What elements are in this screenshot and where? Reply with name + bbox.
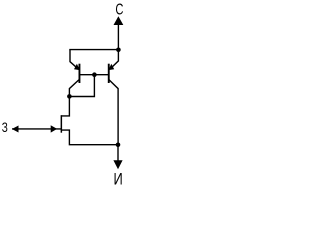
wire base line VT1-VT2 bbox=[79, 74, 108, 76]
svg-text:З: З bbox=[2, 119, 8, 135]
gate arrow right (into channel) bbox=[51, 125, 57, 132]
wire emitter lead VT1 bbox=[70, 50, 79, 70]
wire C lead bbox=[117, 20, 119, 50]
wire base tie to collector VT1 bbox=[69, 75, 94, 97]
gate arrow left (toward Z) bbox=[12, 126, 19, 133]
emitter arrow VT2 (PNP, into base) bbox=[108, 64, 114, 70]
wire emitter lead VT2 bbox=[110, 50, 119, 69]
terminal arrow C (current out, up) bbox=[114, 16, 124, 25]
wire collector VT1 down to FET drain bbox=[61, 80, 79, 116]
wire collector VT2 down to source rail bbox=[109, 80, 118, 145]
transistor VT3 JFET channel bar bbox=[61, 115, 63, 133]
node collector-base tie dot bbox=[67, 94, 72, 99]
terminal arrow I (current out, down) bbox=[113, 160, 122, 169]
emitter arrow VT1 (PNP, into base) bbox=[74, 64, 80, 70]
transistor VT2 base bar bbox=[108, 64, 110, 83]
node base junction dot bbox=[92, 72, 97, 77]
wire gate lead Z bbox=[12, 128, 62, 130]
wire source lead VT3 to I rail bbox=[61, 130, 118, 145]
wire top rail bbox=[69, 49, 118, 51]
svg-text:И: И bbox=[113, 171, 122, 188]
node junction dot top bbox=[116, 48, 121, 53]
wire I lead bbox=[117, 145, 119, 162]
transistor VT1 base bar bbox=[79, 64, 81, 83]
svg-text:C: C bbox=[115, 1, 123, 18]
node junction dot bottom bbox=[116, 143, 121, 148]
